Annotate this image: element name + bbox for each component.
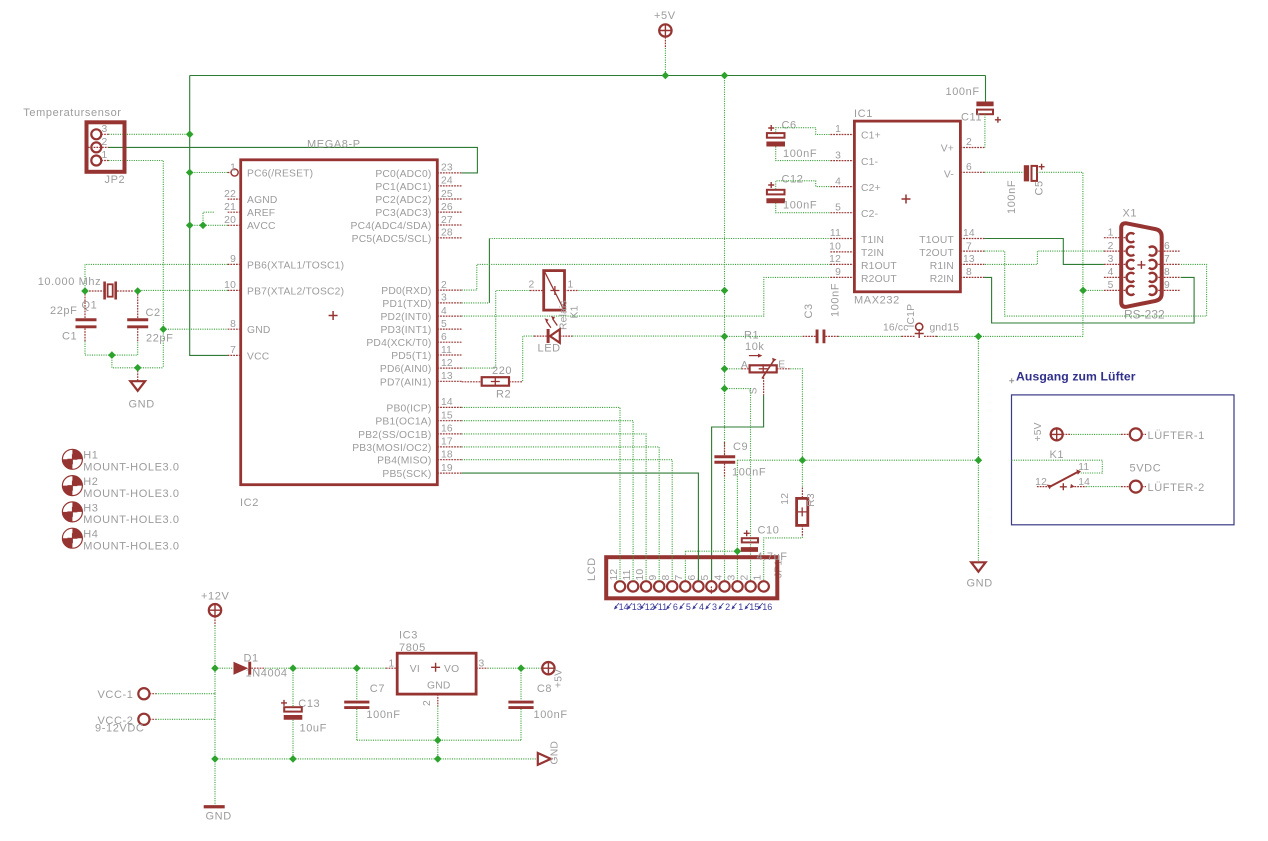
svg-text:PC4(ADC4/SDA): PC4(ADC4/SDA) bbox=[351, 221, 432, 232]
svg-text:C11: C11 bbox=[961, 112, 982, 124]
wire gnd row to fan box bbox=[737, 459, 978, 461]
svg-text:6: 6 bbox=[966, 162, 972, 173]
svg-text:2: 2 bbox=[1108, 241, 1114, 252]
svg-text:18: 18 bbox=[441, 450, 453, 461]
mount-hole H3 bbox=[62, 502, 179, 526]
IC1 pin names bbox=[861, 131, 897, 285]
svg-text:4: 4 bbox=[1108, 267, 1114, 278]
svg-text:T1OUT: T1OUT bbox=[919, 235, 954, 246]
svg-text:2: 2 bbox=[102, 137, 108, 148]
wire D1 to IC3 bbox=[265, 667, 386, 669]
svg-text:11: 11 bbox=[658, 602, 667, 612]
svg-text:1: 1 bbox=[738, 602, 743, 612]
+5V supply symbol (top) bbox=[654, 10, 676, 48]
wire pin14 to LUEFTER-2 bbox=[1086, 486, 1121, 488]
svg-text:9: 9 bbox=[1164, 280, 1170, 291]
capacitor C9 100nF bbox=[714, 441, 766, 479]
svg-text:MOUNT-HOLE3.0: MOUNT-HOLE3.0 bbox=[83, 514, 179, 526]
IC2 right pin numbers bbox=[441, 163, 453, 474]
svg-text:1: 1 bbox=[1108, 228, 1114, 239]
wire LED cathode to R2 bbox=[523, 336, 534, 382]
svg-text:PB2(SS/OC1B): PB2(SS/OC1B) bbox=[358, 430, 431, 441]
svg-text:LED: LED bbox=[538, 343, 561, 355]
svg-text:1: 1 bbox=[230, 162, 236, 173]
svg-text:R2IN: R2IN bbox=[930, 274, 954, 285]
svg-text:10: 10 bbox=[635, 569, 646, 581]
wire S to LCD V0 bbox=[712, 396, 764, 581]
svg-text:AVCC: AVCC bbox=[247, 221, 276, 232]
wire +5V center drop bbox=[724, 76, 726, 456]
svg-text:RS-232: RS-232 bbox=[1124, 308, 1165, 322]
svg-text:2: 2 bbox=[422, 700, 433, 706]
svg-text:20: 20 bbox=[224, 215, 236, 226]
svg-text:C2+: C2+ bbox=[861, 183, 881, 194]
wire coil drive into box bbox=[1012, 460, 1103, 473]
pad VCC-1 bbox=[97, 688, 155, 701]
svg-text:PC3(ADC3): PC3(ADC3) bbox=[375, 208, 431, 219]
wire +5V right drop to C11 bbox=[985, 76, 987, 102]
svg-text:Relais: Relais bbox=[559, 300, 570, 330]
wire PB6 to crystal bbox=[85, 264, 228, 291]
svg-text:GND: GND bbox=[427, 681, 450, 692]
pad LUEFTER-2 bbox=[1130, 462, 1205, 494]
relay contact K1 bbox=[1035, 449, 1090, 490]
+5V symbol (out) bbox=[541, 661, 564, 688]
svg-text:11: 11 bbox=[622, 569, 633, 580]
svg-text:24: 24 bbox=[441, 176, 453, 187]
ground GND (bottom) bbox=[204, 759, 232, 822]
wire C3 to +5V column bbox=[725, 335, 803, 337]
svg-text:C8: C8 bbox=[537, 683, 552, 695]
svg-text:R2OUT: R2OUT bbox=[861, 274, 897, 285]
wire C9 to LCD VDD bbox=[724, 478, 726, 581]
capacitor C2 22pF bbox=[127, 291, 173, 345]
svg-text:R1IN: R1IN bbox=[930, 261, 954, 272]
diode D1 1N4004 bbox=[215, 653, 288, 680]
wire LED anode to +5V bbox=[572, 335, 724, 337]
svg-text:100nF: 100nF bbox=[534, 709, 568, 721]
wire PB0-PB5 bus to LCD bbox=[462, 407, 620, 581]
svg-text:9-12VDC: 9-12VDC bbox=[95, 723, 144, 735]
power part IC1P bbox=[883, 304, 959, 338]
svg-text:7: 7 bbox=[674, 575, 685, 581]
svg-text:GND: GND bbox=[129, 399, 155, 411]
svg-text:IC1: IC1 bbox=[854, 108, 873, 120]
svg-text:PD6(AIN0): PD6(AIN0) bbox=[380, 364, 432, 375]
svg-text:14: 14 bbox=[441, 397, 453, 408]
svg-text:16/cc: 16/cc bbox=[883, 323, 909, 334]
wire AREF-AVCC link bbox=[203, 212, 214, 225]
svg-text:1: 1 bbox=[389, 659, 395, 670]
resistor R2 220 bbox=[462, 365, 523, 401]
wire +5V left drop to IC2 bbox=[190, 76, 228, 356]
svg-text:Temperatursensor: Temperatursensor bbox=[23, 107, 121, 119]
wire coil pin1 to +5V bbox=[578, 290, 724, 292]
mount-hole H2 bbox=[62, 476, 179, 500]
IC1 right pin stubs bbox=[960, 148, 984, 278]
svg-text:16: 16 bbox=[441, 424, 453, 435]
svg-text:C1+: C1+ bbox=[861, 131, 881, 142]
svg-text:12: 12 bbox=[829, 254, 841, 265]
svg-text:5: 5 bbox=[835, 202, 841, 213]
svg-text:LCD: LCD bbox=[586, 557, 598, 581]
svg-text:GND: GND bbox=[967, 578, 993, 590]
svg-text:MEGA8-P: MEGA8-P bbox=[307, 139, 361, 151]
svg-text:7: 7 bbox=[230, 345, 236, 356]
svg-text:4: 4 bbox=[441, 306, 447, 317]
svg-text:14: 14 bbox=[619, 602, 629, 612]
svg-text:100nF: 100nF bbox=[366, 709, 400, 721]
svg-text:22pF: 22pF bbox=[50, 305, 77, 317]
wire V- to C5 bbox=[984, 171, 1023, 173]
svg-text:H2: H2 bbox=[83, 476, 98, 488]
wire +5V net top bus bbox=[664, 48, 666, 76]
svg-text:3: 3 bbox=[102, 124, 108, 135]
svg-text:12: 12 bbox=[780, 493, 791, 505]
svg-text:7: 7 bbox=[1164, 254, 1170, 265]
svg-text:15: 15 bbox=[441, 411, 453, 422]
svg-text:PC5(ADC5/SCL): PC5(ADC5/SCL) bbox=[352, 234, 432, 245]
wire E to gnd column bbox=[790, 369, 802, 488]
svg-text:AGND: AGND bbox=[247, 195, 278, 206]
svg-text:R1: R1 bbox=[744, 330, 759, 342]
wire coil pin2 to PD6 bbox=[462, 291, 530, 369]
mount-hole H4 bbox=[62, 528, 179, 552]
svg-text:V-: V- bbox=[944, 170, 954, 181]
wire crystal gnd net bbox=[85, 341, 138, 355]
svg-text:C1: C1 bbox=[62, 331, 77, 343]
wire gnd rail bbox=[215, 758, 538, 760]
svg-text:VO: VO bbox=[444, 664, 459, 675]
X1 female contacts left bbox=[1127, 233, 1157, 295]
svg-text:12: 12 bbox=[645, 602, 655, 612]
svg-text:T1IN: T1IN bbox=[861, 235, 884, 246]
svg-text:MAX232: MAX232 bbox=[854, 295, 900, 307]
IC2 left pin names bbox=[247, 169, 344, 363]
svg-text:26: 26 bbox=[441, 202, 453, 213]
frame Ausgang zum Luefter bbox=[1009, 370, 1234, 525]
svg-text:H4: H4 bbox=[83, 529, 98, 541]
svg-text:PC0(ADC0): PC0(ADC0) bbox=[375, 169, 431, 180]
svg-text:PC6(/RESET): PC6(/RESET) bbox=[247, 169, 313, 180]
svg-text:100nF: 100nF bbox=[1006, 180, 1018, 214]
svg-text:2: 2 bbox=[529, 280, 535, 291]
wire JP2 pin2 to PC0 bbox=[109, 147, 478, 173]
svg-text:C1-: C1- bbox=[861, 157, 878, 168]
svg-text:9: 9 bbox=[835, 267, 841, 278]
svg-text:PB4(MISO): PB4(MISO) bbox=[377, 456, 431, 467]
svg-text:100nF: 100nF bbox=[783, 148, 817, 160]
wire LED+ backlight bbox=[725, 389, 751, 581]
svg-text:2: 2 bbox=[966, 137, 972, 148]
wire R3 to LED- bbox=[764, 537, 803, 581]
ground GND (fan) bbox=[967, 562, 993, 589]
wire X1 pin5 gnd bbox=[1083, 289, 1104, 291]
svg-text:PC2(ADC2): PC2(ADC2) bbox=[375, 195, 431, 206]
svg-text:15: 15 bbox=[749, 602, 759, 612]
svg-text:22pF: 22pF bbox=[146, 333, 173, 345]
wire PD1 to T1IN bbox=[462, 302, 490, 304]
svg-text:1: 1 bbox=[102, 150, 108, 161]
svg-text:1N4004: 1N4004 bbox=[246, 667, 288, 679]
svg-text:2: 2 bbox=[725, 602, 730, 612]
svg-text:28: 28 bbox=[441, 228, 453, 239]
svg-text:1: 1 bbox=[753, 575, 764, 581]
svg-text:1: 1 bbox=[835, 124, 841, 135]
svg-text:V+: V+ bbox=[941, 144, 954, 155]
svg-text:R3: R3 bbox=[806, 493, 817, 507]
svg-text:PB0(ICP): PB0(ICP) bbox=[386, 403, 431, 414]
capacitor C10 4.7uF bbox=[741, 525, 780, 552]
svg-text:PD2(INT0): PD2(INT0) bbox=[380, 312, 431, 323]
capacitor C5 100nF bbox=[1006, 164, 1046, 214]
IC IC1 MAX232 bbox=[854, 108, 960, 307]
connector LCD JP1 bbox=[586, 551, 787, 598]
svg-text:GND: GND bbox=[247, 325, 270, 336]
svg-text:21: 21 bbox=[224, 202, 236, 213]
svg-text:K1: K1 bbox=[570, 305, 581, 318]
svg-text:PD7(AIN1): PD7(AIN1) bbox=[380, 377, 432, 388]
svg-text:IC2: IC2 bbox=[240, 497, 259, 509]
svg-text:GND: GND bbox=[206, 810, 232, 822]
wire gnd row bbox=[838, 335, 1083, 337]
wire R2IN to X1 pin8 bbox=[984, 277, 1194, 323]
connector X1 RS-232 bbox=[1121, 208, 1165, 322]
svg-text:+5V: +5V bbox=[1033, 422, 1044, 441]
svg-text:Ausgang zum Lüfter: Ausgang zum Lüfter bbox=[1016, 370, 1136, 384]
wire C11 to V+ bbox=[984, 114, 986, 147]
ground flag GND (right) bbox=[538, 741, 561, 765]
diode LED bbox=[534, 316, 572, 355]
svg-text:+12V: +12V bbox=[201, 591, 229, 603]
wire +12V rail bbox=[214, 626, 216, 694]
svg-text:100nF: 100nF bbox=[783, 200, 817, 212]
svg-text:4: 4 bbox=[699, 602, 704, 612]
svg-text:9: 9 bbox=[648, 575, 659, 581]
svg-text:8: 8 bbox=[230, 319, 236, 330]
svg-text:C5: C5 bbox=[1034, 180, 1046, 195]
svg-text:5VDC: 5VDC bbox=[1130, 462, 1162, 474]
svg-text:VCC-1: VCC-1 bbox=[97, 689, 133, 701]
svg-text:PB5(SCK): PB5(SCK) bbox=[382, 469, 431, 480]
IC1 left pin stubs bbox=[830, 135, 854, 278]
capacitor C7 100nF bbox=[344, 668, 400, 740]
svg-text:C9: C9 bbox=[733, 441, 748, 453]
svg-text:gnd15: gnd15 bbox=[930, 323, 960, 334]
svg-text:10.000 Mhz: 10.000 Mhz bbox=[38, 276, 101, 288]
svg-text:8: 8 bbox=[966, 267, 972, 278]
svg-text:6: 6 bbox=[1164, 241, 1170, 252]
svg-text:10: 10 bbox=[829, 242, 841, 253]
svg-text:3: 3 bbox=[726, 575, 737, 581]
svg-text:13: 13 bbox=[441, 371, 453, 382]
+12V symbol bbox=[201, 591, 229, 626]
svg-text:MOUNT-HOLE3.0: MOUNT-HOLE3.0 bbox=[83, 541, 179, 553]
wire PC6 reset bbox=[190, 172, 228, 174]
svg-text:19: 19 bbox=[441, 463, 453, 474]
wire IC3 out bbox=[488, 667, 542, 669]
svg-text:C6: C6 bbox=[782, 120, 797, 132]
svg-text:16: 16 bbox=[762, 602, 772, 612]
connector JP2 bbox=[23, 107, 125, 186]
svg-text:VI: VI bbox=[410, 664, 420, 675]
pad LUEFTER-1 bbox=[1130, 428, 1205, 442]
resistor R3 12 bbox=[780, 488, 817, 537]
svg-text:4.7uF: 4.7uF bbox=[757, 551, 788, 563]
svg-text:6: 6 bbox=[673, 602, 678, 612]
IC2 right pin stubs bbox=[437, 173, 461, 473]
svg-text:PD3(INT1): PD3(INT1) bbox=[380, 325, 431, 336]
svg-text:PB1(OC1A): PB1(OC1A) bbox=[375, 417, 431, 428]
capacitor C3 100nF bbox=[803, 283, 842, 344]
svg-text:H3: H3 bbox=[83, 502, 98, 514]
LCD pin numbers bbox=[609, 569, 764, 581]
wire down to gnd rail bbox=[214, 694, 216, 759]
svg-text:MOUNT-HOLE3.0: MOUNT-HOLE3.0 bbox=[83, 488, 179, 500]
svg-text:12: 12 bbox=[441, 358, 453, 369]
svg-text:C12: C12 bbox=[782, 174, 804, 186]
wire C5 to gnd column bbox=[1037, 172, 1083, 336]
svg-text:6: 6 bbox=[441, 332, 447, 343]
pad VCC-2 bbox=[95, 714, 156, 735]
wire PD2 to R2OUT bbox=[462, 277, 831, 316]
+5V symbol (fan) bbox=[1033, 422, 1064, 441]
svg-text:27: 27 bbox=[441, 215, 453, 226]
mount-hole H1 bbox=[62, 449, 179, 473]
svg-text:PD5(T1): PD5(T1) bbox=[391, 351, 431, 362]
svg-text:T2OUT: T2OUT bbox=[919, 248, 954, 259]
svg-text:R2: R2 bbox=[496, 389, 511, 401]
wire PB7 to crystal bbox=[138, 289, 228, 292]
wire GND pin8 bbox=[163, 328, 227, 330]
svg-text:PB3(MOSI/OC2): PB3(MOSI/OC2) bbox=[352, 443, 431, 454]
capacitor C12 100nF bbox=[766, 174, 817, 212]
IC1 pin numbers bbox=[829, 124, 841, 278]
pin 1 inversion bubble bbox=[231, 169, 238, 176]
svg-text:H1: H1 bbox=[83, 450, 98, 462]
svg-text:100nF: 100nF bbox=[830, 283, 842, 317]
svg-text:5: 5 bbox=[441, 319, 447, 330]
wire +5V to LUEFTER-1 bbox=[1063, 433, 1130, 435]
svg-text:PB6(XTAL1/TOSC1): PB6(XTAL1/TOSC1) bbox=[247, 260, 344, 271]
svg-text:PD0(RXD): PD0(RXD) bbox=[381, 286, 431, 297]
wire C6 to pin1 bbox=[776, 128, 831, 135]
svg-text:MOUNT-HOLE3.0: MOUNT-HOLE3.0 bbox=[83, 462, 179, 474]
svg-text:23: 23 bbox=[441, 163, 453, 174]
svg-text:PC1(ADC1): PC1(ADC1) bbox=[375, 182, 431, 193]
wire JP2 pin1 to GND net bbox=[109, 161, 164, 368]
wire gnd drop bbox=[977, 336, 979, 562]
svg-text:4: 4 bbox=[713, 575, 724, 581]
svg-text:6: 6 bbox=[687, 575, 698, 581]
svg-text:220: 220 bbox=[492, 365, 512, 377]
svg-text:100nF: 100nF bbox=[946, 86, 980, 98]
X1 pin numbers bbox=[1108, 228, 1114, 292]
svg-text:7: 7 bbox=[966, 242, 972, 253]
svg-text:2: 2 bbox=[441, 280, 447, 291]
wire C12 to pin5 bbox=[776, 203, 831, 213]
wire VCC-1 bbox=[156, 693, 215, 695]
IC2 left pin stubs bbox=[228, 173, 241, 356]
svg-text:PD4(XCK/T0): PD4(XCK/T0) bbox=[366, 338, 431, 349]
svg-text:13: 13 bbox=[632, 602, 642, 612]
svg-text:VCC: VCC bbox=[247, 351, 270, 362]
svg-text:1: 1 bbox=[568, 280, 574, 291]
svg-text:Q1: Q1 bbox=[82, 300, 98, 312]
capacitor C1 22pF bbox=[50, 291, 97, 343]
svg-text:14: 14 bbox=[963, 228, 975, 239]
svg-text:13: 13 bbox=[963, 254, 975, 265]
svg-text:+5V: +5V bbox=[654, 10, 676, 22]
wire C6 to pin3 bbox=[776, 147, 831, 161]
svg-text:C10: C10 bbox=[758, 525, 780, 537]
capacitor C11 100nF bbox=[946, 86, 1001, 124]
svg-text:K1: K1 bbox=[1050, 449, 1065, 461]
svg-text:R1OUT: R1OUT bbox=[861, 261, 897, 272]
wire X1 pin2 to R1IN bbox=[984, 251, 1104, 264]
ground GND (crystal) bbox=[129, 368, 155, 411]
svg-text:25: 25 bbox=[441, 189, 453, 200]
svg-text:8: 8 bbox=[661, 575, 672, 581]
svg-text:10: 10 bbox=[224, 280, 236, 291]
wire A to +5V bbox=[725, 368, 742, 370]
svg-text:+5V: +5V bbox=[554, 669, 565, 688]
svg-text:X1: X1 bbox=[1123, 208, 1138, 220]
svg-text:C2: C2 bbox=[146, 307, 161, 319]
svg-text:C7: C7 bbox=[370, 683, 385, 695]
svg-text:3: 3 bbox=[441, 293, 447, 304]
svg-text:C2-: C2- bbox=[861, 209, 878, 220]
wire gnd down LCD VSS bbox=[736, 460, 738, 581]
svg-text:JP2: JP2 bbox=[105, 174, 126, 186]
svg-text:PB7(XTAL2/TOSC2): PB7(XTAL2/TOSC2) bbox=[247, 287, 344, 298]
wire IC3 gnd pin bbox=[437, 706, 439, 740]
svg-text:5: 5 bbox=[686, 602, 691, 612]
IC2 left pin numbers bbox=[224, 162, 236, 356]
capacitor C8 100nF bbox=[508, 668, 567, 740]
node JP2 pin3 wire bbox=[109, 133, 190, 135]
svg-text:5: 5 bbox=[700, 575, 711, 581]
svg-text:17: 17 bbox=[441, 437, 453, 448]
svg-text:E: E bbox=[778, 360, 785, 371]
svg-text:10uF: 10uF bbox=[300, 723, 327, 735]
svg-text:3: 3 bbox=[712, 602, 717, 612]
svg-text:2: 2 bbox=[739, 575, 750, 581]
wire T1OUT to X1 pin3 bbox=[984, 239, 1104, 265]
svg-text:4: 4 bbox=[835, 176, 841, 187]
svg-text:IC3: IC3 bbox=[399, 630, 418, 642]
wire VCC-2 bbox=[156, 718, 215, 720]
svg-text:22: 22 bbox=[224, 189, 236, 200]
svg-text:10k: 10k bbox=[745, 341, 765, 353]
svg-text:LÜFTER-2: LÜFTER-2 bbox=[1148, 482, 1205, 494]
wire C12 to pin4 bbox=[776, 181, 831, 189]
crystal Q1 10.000 Mhz bbox=[38, 276, 133, 312]
LCD blue xref labels bbox=[614, 602, 772, 612]
capacitor C6 100nF bbox=[766, 120, 817, 160]
svg-text:12: 12 bbox=[609, 569, 620, 581]
X1 pin stubs bbox=[1104, 238, 1181, 291]
IC IC2 MEGA8-P bbox=[240, 139, 437, 510]
svg-text:3: 3 bbox=[1108, 254, 1114, 265]
wire cap gnd row bbox=[357, 739, 521, 741]
IC2 right pin names bbox=[351, 169, 432, 480]
LCD pad circles bbox=[615, 579, 769, 594]
wire T2OUT to X1 pin7 bbox=[984, 251, 1206, 316]
trimmer R1 10k bbox=[741, 330, 790, 396]
svg-text:11: 11 bbox=[830, 228, 841, 239]
svg-text:9: 9 bbox=[230, 254, 236, 265]
